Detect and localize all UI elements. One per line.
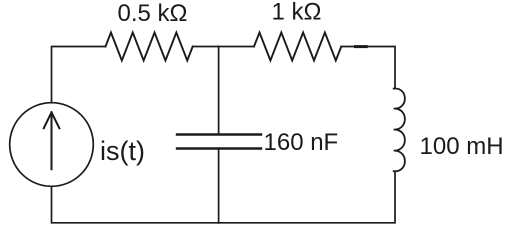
svg-text:100 mH: 100 mH [420, 133, 504, 160]
wire bottom middle (node B to source bottom) [52, 187, 219, 223]
capacitor C1 [177, 135, 261, 149]
wire R2 right lead to top-right corner [341, 47, 395, 89]
current source arrow [44, 112, 60, 169]
svg-text:160 nF: 160 nF [264, 129, 339, 156]
current source U1 circle [10, 103, 94, 187]
wire overlap segment on top wire [356, 45, 367, 48]
wire capacitor bottom plate to node B [218, 149, 220, 223]
resistor R2 [254, 33, 341, 61]
resistor R1 [106, 33, 193, 61]
wire node A to capacitor top plate [218, 47, 220, 135]
wire top-left (source top to R1 left lead) [52, 47, 106, 103]
svg-text:0.5 kΩ: 0.5 kΩ [118, 0, 188, 27]
wire R1 right lead to node A [193, 46, 219, 48]
wire inductor bottom to bottom-right corner [219, 172, 395, 223]
inductor L1 [394, 89, 405, 172]
svg-text:is(t): is(t) [100, 136, 145, 166]
node A (top middle junction) [219, 46, 254, 48]
svg-text:1 kΩ: 1 kΩ [272, 0, 322, 26]
